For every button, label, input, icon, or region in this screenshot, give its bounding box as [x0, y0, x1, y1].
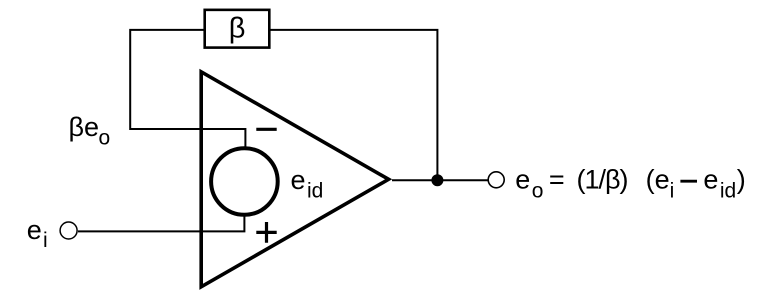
svg-text:o: o: [99, 127, 111, 150]
svg-text:e: e: [291, 165, 306, 195]
svg-text:i: i: [670, 180, 675, 203]
svg-text:e: e: [515, 165, 530, 195]
svg-text:βe: βe: [69, 112, 100, 142]
svg-text:e: e: [27, 215, 42, 245]
svg-text:(e: (e: [646, 165, 670, 195]
svg-text:(1/β): (1/β): [577, 165, 628, 195]
svg-text:e: e: [703, 165, 718, 195]
svg-text:=: =: [549, 165, 565, 195]
svg-text:β: β: [229, 13, 246, 45]
svg-text:o: o: [532, 180, 544, 203]
svg-text:id: id: [307, 180, 323, 203]
svg-text:): ): [737, 165, 746, 195]
svg-text:i: i: [43, 229, 48, 252]
svg-text:id: id: [720, 180, 736, 203]
